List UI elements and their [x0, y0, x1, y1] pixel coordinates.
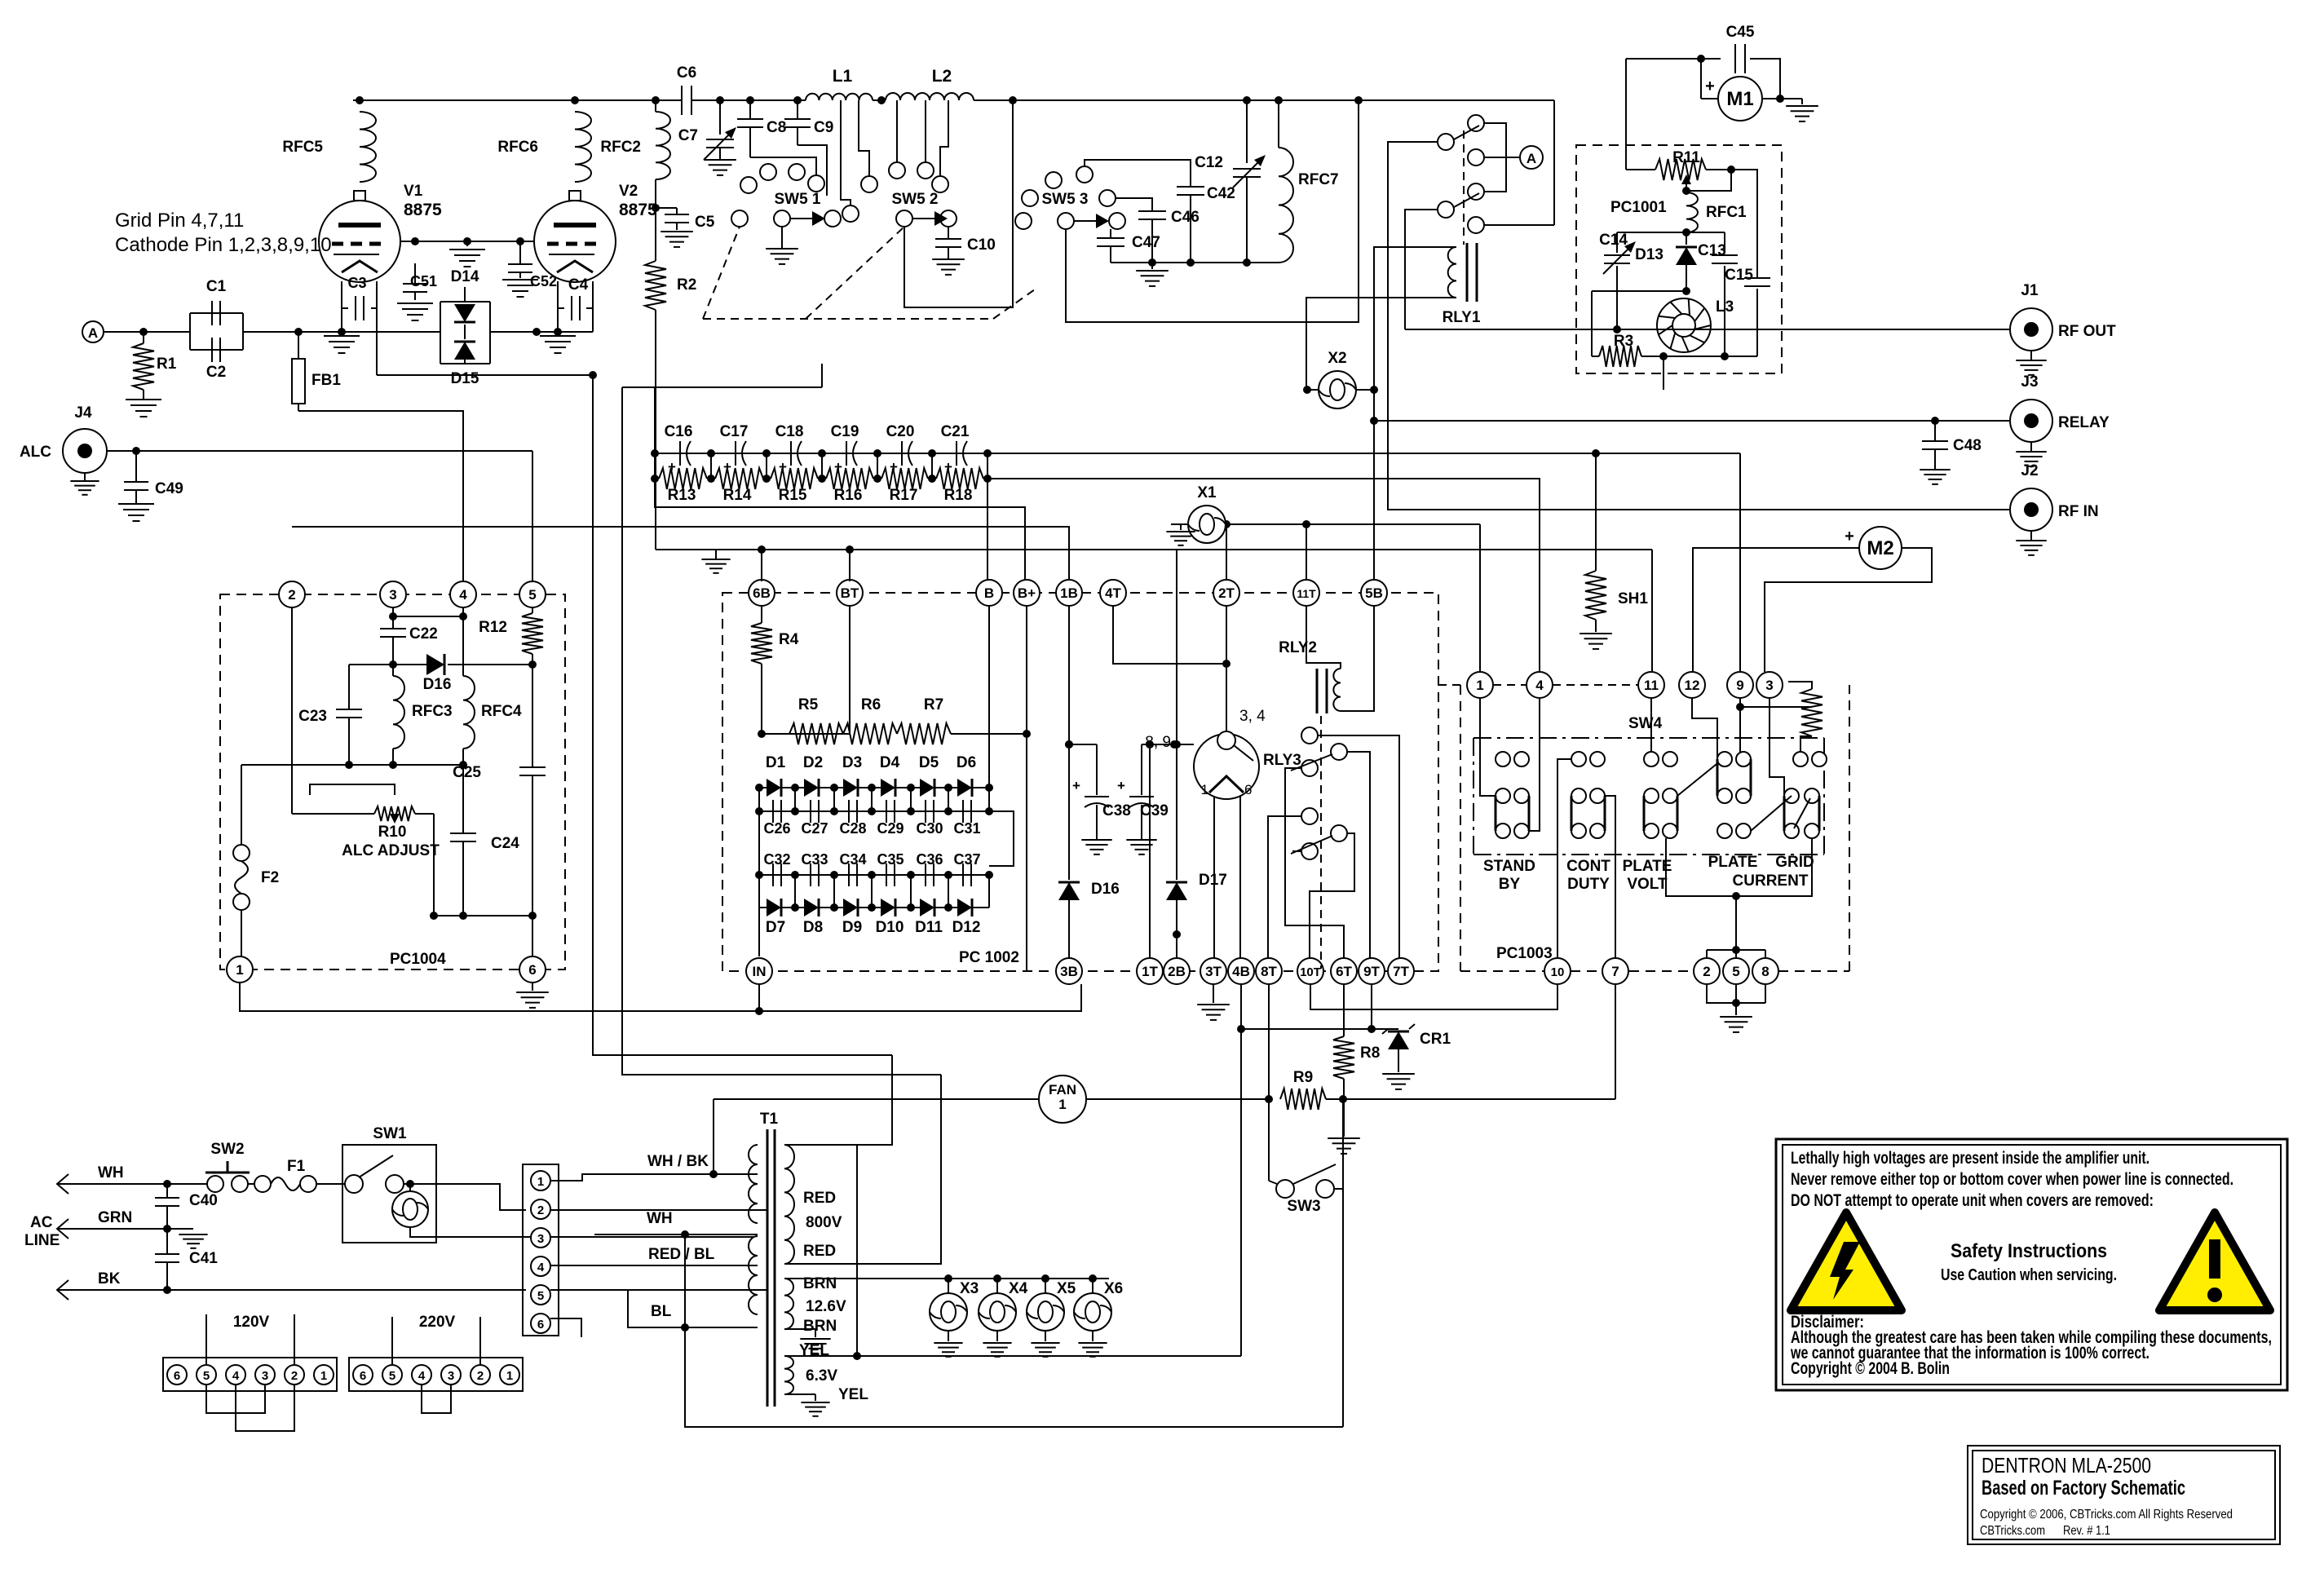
connector 5B: [1361, 580, 1387, 606]
svg-text:7T: 7T: [1393, 964, 1409, 979]
svg-text:7: 7: [1611, 964, 1619, 979]
svg-text:R15: R15: [779, 487, 807, 504]
diode CR1 zener: [1372, 1028, 1398, 1030]
svg-text:WH / BK: WH / BK: [647, 1153, 709, 1170]
svg-text:6: 6: [174, 1369, 180, 1383]
resistor R1: [143, 332, 144, 343]
wire secondary top: [784, 1055, 892, 1145]
svg-text:C40: C40: [189, 1192, 218, 1209]
terminal strip main: [523, 1164, 559, 1336]
svg-text:C9: C9: [814, 119, 833, 136]
wire 12 to plate current: [1692, 698, 1717, 759]
capacitor C15: [1744, 277, 1770, 279]
connector PC1003-12: [1679, 672, 1705, 698]
wire 10 up to cont duty: [1557, 759, 1571, 958]
svg-text:C22: C22: [409, 625, 438, 643]
ground SW5-1 rotor: [781, 227, 783, 249]
svg-text:C52: C52: [530, 273, 557, 289]
wire L1 tap 1: [841, 100, 851, 205]
svg-text:C16: C16: [665, 423, 693, 440]
connector PC1003-2: [1694, 958, 1720, 984]
svg-text:R2: R2: [677, 276, 696, 294]
ground YEL: [784, 1393, 815, 1395]
svg-text:9: 9: [1736, 678, 1743, 693]
wire cathode line: [376, 308, 378, 375]
wire C9 to SW5-1 pole: [797, 145, 827, 196]
wire 7T up: [1398, 735, 1400, 736]
wire secondary bottom: [784, 1075, 941, 1264]
svg-text:R9: R9: [1293, 1069, 1313, 1086]
transformer primary: [749, 1145, 758, 1223]
meter M2: [1859, 527, 1902, 569]
wire D13 node to L3: [1592, 290, 1686, 292]
ground C52: [502, 279, 538, 280]
wire C23 branch: [349, 664, 393, 665]
svg-text:1: 1: [1201, 782, 1208, 797]
capacitor C22: [380, 628, 406, 629]
wire R11 right to C15: [1731, 170, 1757, 277]
svg-text:3: 3: [448, 1369, 454, 1383]
wire term4 right: [550, 1265, 754, 1266]
wire 6B stub: [761, 550, 762, 581]
connector 2B: [1164, 958, 1190, 984]
svg-text:Never remove either top or bot: Never remove either top or bottom cover …: [1791, 1170, 2233, 1189]
connector 11T: [1293, 580, 1319, 606]
resistor R16: [826, 468, 873, 489]
capacitor C46: [1138, 210, 1166, 212]
diode row D7-D12: [759, 907, 989, 908]
svg-text:3B: 3B: [1060, 964, 1078, 979]
fan FAN1: [714, 1098, 1040, 1100]
wire SW5-3 contact to C46: [1116, 198, 1152, 210]
connector PC1003-3: [1756, 672, 1783, 698]
wire 120V links: [206, 1385, 265, 1413]
svg-text:5: 5: [389, 1369, 395, 1383]
svg-text:J3: J3: [2021, 373, 2038, 391]
relay RLY3: [1194, 734, 1259, 799]
wire bottom contact: [1484, 224, 1554, 226]
meter M1: [1718, 77, 1762, 121]
connector PC1003-10: [1544, 958, 1571, 984]
wire 1T up: [1149, 744, 1151, 958]
inductor L1: [806, 94, 873, 100]
wire pole1 to RF IN: [1388, 142, 2011, 510]
svg-text:SW2: SW2: [210, 1141, 244, 1158]
warning triangle bolt: [1791, 1212, 1902, 1310]
svg-text:PLATE: PLATE: [1708, 854, 1758, 871]
ground J2: [2030, 531, 2032, 541]
svg-text:RLY3: RLY3: [1263, 752, 1301, 769]
wire 120V stubs: [205, 1314, 207, 1365]
svg-text:C12: C12: [1195, 154, 1223, 171]
transformer T1 core: [767, 1129, 769, 1407]
svg-text:BY: BY: [1499, 876, 1521, 893]
svg-text:RFC4: RFC4: [481, 703, 522, 720]
wire 220V links: [422, 1385, 451, 1413]
capacitor C52: [519, 241, 521, 263]
svg-text:D6: D6: [957, 754, 976, 771]
svg-text:RF OUT: RF OUT: [2058, 323, 2116, 340]
ground M1: [1801, 99, 1803, 104]
svg-text:R13: R13: [668, 487, 696, 504]
ground X1: [1181, 523, 1188, 525]
svg-text:4T: 4T: [1105, 585, 1121, 601]
svg-text:C42: C42: [1207, 185, 1235, 202]
svg-text:12.6V: 12.6V: [806, 1298, 846, 1315]
wire 1 to standby: [1480, 698, 1496, 796]
connector 3T: [1200, 958, 1226, 984]
wire bus right corner down: [1553, 100, 1555, 225]
svg-text:R5: R5: [798, 696, 819, 713]
connector 1B: [1056, 580, 1082, 606]
wire SW5-2 rotor loop: [904, 100, 1013, 307]
capacitor C16: [679, 441, 681, 466]
svg-text:R1: R1: [157, 356, 177, 373]
resistor SW4: [1800, 706, 1812, 708]
wire resistor row: [651, 475, 659, 483]
svg-text:1: 1: [320, 1369, 327, 1383]
node A input: [82, 321, 104, 342]
AC WH arrow: [57, 1174, 68, 1194]
fuse F2: [241, 765, 242, 845]
lamp X2: [1319, 371, 1356, 409]
svg-text:4: 4: [418, 1369, 426, 1383]
switch SW1 box: [342, 1145, 436, 1243]
svg-text:R6: R6: [861, 696, 881, 713]
wire tank bottom bus: [1111, 262, 1279, 263]
wire SW5-3 rotor loop: [1066, 100, 1359, 322]
svg-text:RELAY: RELAY: [2058, 414, 2110, 431]
svg-text:R18: R18: [944, 487, 973, 504]
wire 6T SW3 drop: [1342, 1189, 1344, 1427]
svg-text:6: 6: [528, 962, 536, 978]
svg-text:ALC ADJUST: ALC ADJUST: [342, 842, 440, 859]
connector PC1003-9: [1727, 672, 1753, 698]
wire term5 right: [550, 1289, 767, 1291]
connector PC1004-6: [519, 956, 546, 983]
wire L2 tap 2: [925, 100, 926, 162]
svg-text:Grid Pin 4,7,11: Grid Pin 4,7,11: [115, 210, 244, 232]
svg-text:M1: M1: [1726, 88, 1753, 110]
capacitor C1: [190, 312, 243, 314]
inductor RFC5: [360, 112, 376, 182]
svg-text:RLY1: RLY1: [1443, 309, 1481, 326]
svg-text:X3: X3: [960, 1280, 979, 1297]
capacitor C2: [190, 349, 243, 351]
wire resistor to grid sw: [1800, 736, 1812, 759]
resistor R3: [1599, 346, 1641, 367]
svg-text:F1: F1: [287, 1158, 306, 1175]
capacitor C9: [797, 100, 798, 118]
connector 6T: [1331, 958, 1357, 984]
svg-text:X5: X5: [1057, 1280, 1076, 1297]
wire fan feed: [713, 1099, 714, 1174]
svg-text:C26: C26: [763, 820, 790, 837]
svg-text:PLATE: PLATE: [1623, 858, 1672, 875]
connector 3B: [1056, 958, 1082, 984]
svg-text:C38: C38: [1102, 802, 1131, 819]
svg-text:SW1: SW1: [373, 1125, 407, 1142]
connector J2 RF IN: [2010, 488, 2052, 531]
svg-text:10: 10: [1551, 965, 1565, 979]
wire 11 to plate volt: [1650, 698, 1652, 752]
svg-text:V1: V1: [404, 183, 423, 200]
wire cathode return left: [593, 375, 892, 1055]
PC1003 dashed box: [1460, 685, 1461, 971]
wire pin2 down to R10: [291, 607, 293, 814]
svg-text:+: +: [1117, 778, 1125, 793]
connector 4T: [1100, 580, 1126, 606]
wire 674 to 11: [1651, 550, 1653, 672]
transformer secondary 6V: [784, 1356, 793, 1394]
relay RLY2 contact set 1: [1301, 727, 1318, 744]
svg-text:3: 3: [389, 587, 396, 603]
wire top plate bus: [353, 99, 682, 101]
capacitor C42: [1177, 186, 1204, 188]
diodes D14 D15 box: [440, 301, 490, 303]
svg-text:2: 2: [477, 1369, 484, 1383]
connector IN: [746, 958, 772, 984]
svg-text:L3: L3: [1716, 298, 1734, 316]
ground V1 cathode: [341, 332, 342, 336]
inductor RFC3: [392, 665, 394, 676]
svg-text:X4: X4: [1009, 1280, 1028, 1297]
connector 1T: [1137, 958, 1163, 984]
ground C51: [397, 303, 433, 304]
svg-text:WH: WH: [98, 1164, 124, 1181]
ground GRN: [167, 1228, 193, 1230]
svg-text:D4: D4: [880, 754, 900, 771]
svg-text:Copyright © 2006, CBTricks.com: Copyright © 2006, CBTricks.com All Right…: [1980, 1508, 2233, 1522]
wire term2 riser: [766, 1209, 767, 1211]
capacitor C25: [519, 766, 546, 768]
inductor RFC2: [655, 100, 656, 112]
wire R2 bottom: [655, 538, 656, 550]
svg-text:C4: C4: [568, 276, 589, 294]
svg-text:3: 3: [1765, 678, 1773, 693]
switch SW4 plate volt: [1644, 752, 1659, 766]
connector PC1004-2: [279, 581, 305, 607]
connector PC1003-4: [1527, 672, 1553, 698]
svg-text:8, 9: 8, 9: [1145, 734, 1171, 751]
wire RLY2 coil to 5B: [1341, 606, 1374, 711]
capacitor C40: [166, 1184, 168, 1197]
ground C5: [661, 231, 693, 232]
wire L2 tap 1: [896, 100, 898, 162]
potentiometer R11: [1626, 169, 1655, 170]
svg-text:RFC2: RFC2: [600, 139, 641, 156]
svg-text:PC1003: PC1003: [1496, 945, 1553, 962]
wire GRN: [67, 1228, 193, 1230]
ground J1: [2030, 351, 2032, 360]
wire relay line: [1374, 420, 2011, 422]
svg-text:8T: 8T: [1261, 964, 1277, 979]
wire L1 tap 2: [859, 100, 869, 176]
svg-text:D5: D5: [919, 754, 939, 771]
svg-text:5: 5: [537, 1289, 544, 1303]
connector 9T: [1359, 958, 1385, 984]
svg-text:GRN: GRN: [98, 1209, 132, 1226]
svg-text:Cathode Pin 1,2,3,8,9,10: Cathode Pin 1,2,3,8,9,10: [115, 234, 332, 256]
resistor R4: [761, 606, 762, 623]
ground BRN: [784, 1328, 815, 1330]
svg-text:R3: R3: [1614, 333, 1633, 350]
svg-text:+: +: [1845, 528, 1854, 545]
svg-text:R8: R8: [1360, 1045, 1380, 1062]
svg-text:SH1: SH1: [1618, 590, 1648, 607]
svg-text:3, 4: 3, 4: [1239, 708, 1266, 725]
transformer secondary HV: [784, 1145, 794, 1264]
svg-text:SW5 3: SW5 3: [1041, 191, 1088, 208]
svg-text:RFC5: RFC5: [282, 139, 323, 156]
toroid L3: [1657, 298, 1711, 352]
svg-text:PC1004: PC1004: [390, 951, 446, 968]
connector PC1004-4: [450, 581, 476, 607]
svg-text:+: +: [1072, 778, 1080, 793]
svg-text:D16: D16: [1091, 881, 1120, 898]
connector PC1003-8: [1752, 958, 1778, 984]
svg-text:C31: C31: [953, 820, 980, 837]
svg-text:R17: R17: [890, 487, 918, 504]
svg-text:C18: C18: [775, 423, 804, 440]
svg-text:YEL: YEL: [838, 1386, 868, 1403]
wire BK: [67, 1289, 526, 1291]
warning triangle exclaim: [2159, 1212, 2270, 1310]
relay RLY1 contacts: [1468, 115, 1484, 131]
svg-text:5: 5: [1732, 964, 1739, 979]
connector PC1003-1: [1467, 672, 1493, 698]
svg-text:4: 4: [1535, 678, 1544, 693]
wire X1 line: [1171, 523, 1480, 525]
svg-text:C41: C41: [189, 1250, 218, 1267]
wire to 2-5-8: [1735, 896, 1737, 950]
svg-text:BT: BT: [841, 585, 859, 601]
connector J4 ALC: [63, 429, 107, 473]
connector 7T: [1388, 958, 1414, 984]
capacitor C45: [1626, 58, 1701, 60]
relay RLY2 coil: [1306, 606, 1341, 669]
wire meter bottom bus: [1666, 838, 1736, 896]
svg-text:3: 3: [262, 1369, 268, 1383]
ground tank: [1151, 263, 1153, 269]
ground C38: [1081, 839, 1111, 841]
capacitor C19: [846, 441, 847, 466]
wire B down: [988, 606, 990, 788]
svg-text:C21: C21: [941, 423, 970, 440]
wire C2 to tubes: [243, 331, 440, 333]
potentiometer R10: [292, 813, 374, 815]
resistor R2: [645, 261, 666, 310]
svg-text:VOLT: VOLT: [1627, 876, 1668, 893]
wire cont duty to 7: [1605, 796, 1615, 958]
wire RLY3 pole 8-9: [1174, 744, 1194, 745]
inductor RFC7: [1278, 100, 1279, 148]
svg-text:C39: C39: [1140, 802, 1169, 819]
PC1002 dashed box: [722, 593, 1438, 971]
capacitor C39: [1141, 744, 1142, 795]
wire 6T down resistor R8: [1343, 984, 1345, 1036]
svg-text:C29: C29: [877, 820, 904, 837]
connector BT: [837, 580, 863, 606]
svg-text:2B: 2B: [1168, 964, 1186, 979]
svg-text:C49: C49: [155, 480, 183, 497]
diode D16b: [1058, 882, 1080, 900]
capacitor C51: [414, 263, 416, 283]
wire C8 to SW5-1: [750, 157, 816, 175]
svg-text:J1: J1: [2021, 282, 2039, 299]
wire PC1004 bottom bus: [241, 764, 463, 766]
resistors R5 R6 R7: [762, 733, 789, 735]
svg-text:4B: 4B: [1232, 964, 1250, 979]
svg-text:C7: C7: [678, 127, 698, 144]
wire C39 to RLY3: [1142, 744, 1174, 745]
svg-text:RFC6: RFC6: [497, 139, 538, 156]
svg-text:6.3V: 6.3V: [806, 1367, 837, 1385]
wire coil leads: [1374, 247, 1456, 581]
svg-text:X6: X6: [1104, 1280, 1123, 1297]
ground 2-5-8: [1720, 1016, 1752, 1018]
svg-text:C46: C46: [1171, 209, 1200, 226]
wire BRN bus right: [1093, 1278, 1109, 1279]
blade grid: [1751, 796, 1792, 831]
ground SH1: [1580, 633, 1612, 634]
connector B: [976, 580, 1002, 606]
switch SW4 cont duty: [1571, 752, 1586, 766]
ground C7: [704, 159, 736, 161]
svg-text:C32: C32: [763, 851, 790, 868]
svg-text:R10: R10: [378, 824, 407, 841]
svg-text:RED: RED: [803, 1243, 836, 1260]
svg-text:3: 3: [537, 1232, 544, 1246]
svg-text:C24: C24: [491, 835, 519, 852]
wire RLY3 lead1 to 3T: [1213, 797, 1215, 958]
wire 8T down: [1268, 984, 1270, 1099]
svg-text:C1: C1: [206, 278, 227, 295]
wire C1/C2 frame: [189, 313, 191, 350]
svg-text:1: 1: [506, 1369, 513, 1383]
svg-text:R4: R4: [779, 631, 799, 648]
wire 9 junction: [1736, 703, 1744, 711]
wire A to C1: [104, 331, 190, 333]
capacitor C6: [681, 86, 683, 115]
ground stub 674 line: [715, 550, 717, 559]
svg-text:C15: C15: [1725, 267, 1753, 284]
wire RFC1 node: [1617, 232, 1725, 233]
svg-text:CBTricks.com: CBTricks.com: [1980, 1524, 2045, 1538]
svg-text:A: A: [88, 325, 98, 341]
wire contact to A node: [1484, 157, 1520, 158]
PC1001 dashed box: [1576, 145, 1782, 373]
svg-text:120V: 120V: [233, 1314, 270, 1331]
ground CR1: [1382, 1073, 1415, 1075]
svg-text:C27: C27: [801, 820, 828, 837]
svg-text:D12: D12: [952, 919, 981, 936]
svg-text:800V: 800V: [806, 1214, 842, 1231]
wire R9 to 7: [1615, 984, 1616, 1099]
svg-text:R7: R7: [924, 696, 943, 713]
ground C49: [118, 503, 154, 505]
svg-text:PC 1002: PC 1002: [959, 949, 1019, 966]
wire V1 grid to V2 grid: [400, 241, 534, 242]
connector 4B: [1228, 958, 1254, 984]
wire R10 right down: [433, 814, 435, 916]
svg-text:10T: 10T: [1300, 965, 1321, 979]
wire bias return left: [622, 387, 941, 1075]
wire 3B up diode D16: [1068, 606, 1070, 744]
svg-text:C19: C19: [831, 423, 859, 440]
connector PC1004-3: [380, 581, 406, 607]
svg-text:C34: C34: [839, 851, 866, 868]
